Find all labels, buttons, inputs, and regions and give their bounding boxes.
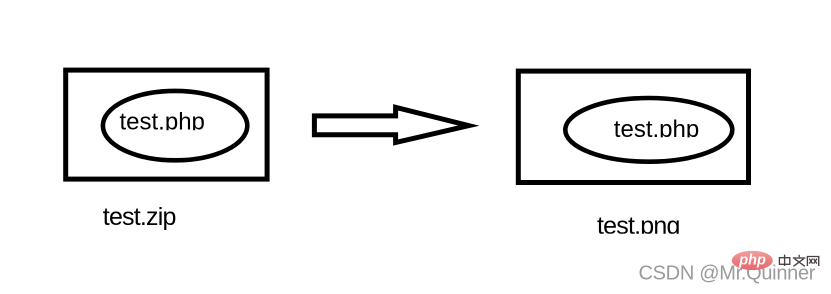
svg-text:CSDN @Mr.Quinner: CSDN @Mr.Quinner bbox=[639, 263, 816, 285]
svg-text:php: php bbox=[738, 253, 766, 269]
svg-text:test.zip: test.zip bbox=[103, 203, 176, 231]
